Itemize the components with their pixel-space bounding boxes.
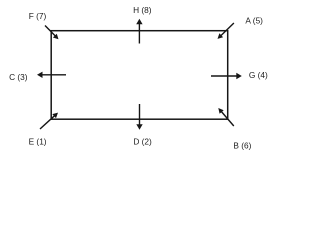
svg-text:C (3): C (3): [9, 72, 28, 82]
arrow B (into bottom-right corner): [218, 108, 234, 126]
svg-text:F (7): F (7): [29, 11, 47, 21]
arrow D (down, bottom edge): [136, 104, 142, 130]
arrow A (into top-right corner): [218, 23, 234, 39]
rectangle body: [51, 31, 228, 120]
svg-text:D (2): D (2): [133, 137, 152, 147]
svg-text:H (8): H (8): [133, 5, 152, 15]
svg-text:B (6): B (6): [233, 140, 251, 150]
arrow F (into top-left corner): [45, 26, 59, 40]
arrow G (right, right edge): [211, 73, 242, 79]
svg-text:E (1): E (1): [29, 137, 47, 147]
svg-text:A (5): A (5): [245, 15, 263, 25]
arrow E (into bottom-left corner): [40, 113, 58, 129]
arrow C (left, left edge): [37, 72, 66, 78]
arrow H (up, top edge): [136, 19, 142, 44]
svg-text:G (4): G (4): [249, 70, 268, 80]
